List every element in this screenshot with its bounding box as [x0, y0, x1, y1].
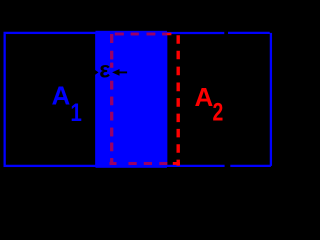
bottom dashed edge	[110, 162, 180, 165]
rectangle A2 outline	[96, 33, 271, 166]
svg-text:A: A	[52, 80, 71, 110]
svg-text:1: 1	[70, 99, 82, 127]
epsilon-shifted dashed rectangle (red base layer)	[110, 34, 180, 166]
epsilon-shifted dashed rectangle (purple where over fill)	[110, 34, 172, 165]
top dashed edge	[115, 33, 171, 36]
svg-text:2: 2	[213, 99, 224, 127]
left arrow (points right, mostly hidden on black)	[85, 69, 99, 76]
intersection fill	[96, 31, 167, 168]
rectangle A1 outline	[5, 33, 167, 166]
right dashed edge	[176, 35, 179, 166]
svg-text:ε: ε	[99, 57, 110, 83]
left dashed edge	[110, 34, 113, 165]
svg-text:A: A	[195, 82, 214, 112]
label A1	[52, 80, 82, 127]
right arrow (points left)	[112, 69, 127, 76]
label A2	[195, 82, 224, 127]
